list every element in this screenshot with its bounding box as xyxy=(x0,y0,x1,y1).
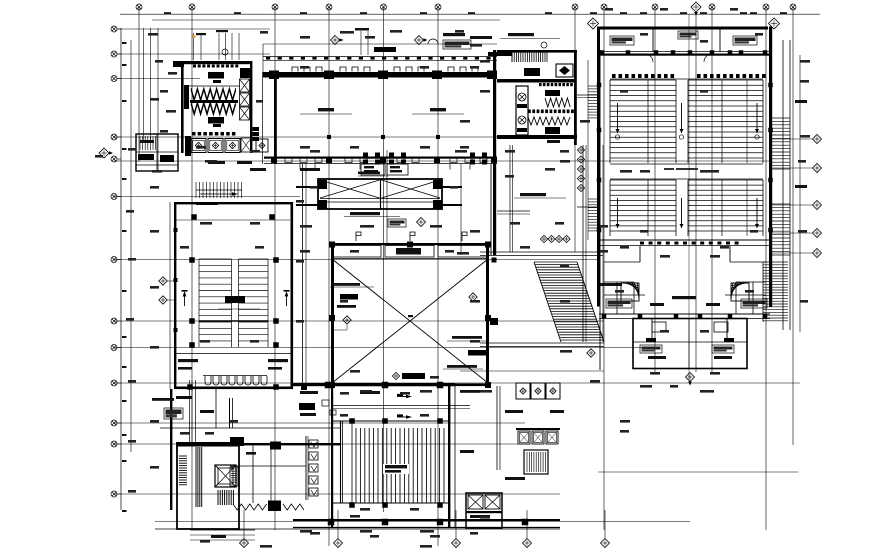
auditorium top rooms xyxy=(600,51,770,53)
midblock dotted row xyxy=(528,110,574,114)
void D big cross xyxy=(332,259,488,383)
left dimension ticks xyxy=(122,42,127,44)
auditorium cross aisle xyxy=(610,163,763,165)
stage block C end piers xyxy=(318,180,327,189)
stage block C cross left xyxy=(320,180,380,198)
hall B west wall xyxy=(274,72,277,164)
grand stair xyxy=(534,262,604,340)
void D columns xyxy=(329,242,335,248)
seat bank mid dividers xyxy=(647,80,649,163)
block F entry steps xyxy=(190,529,255,531)
wall double x387 xyxy=(386,150,388,243)
hall G elevator row top xyxy=(516,383,530,399)
block A elevator row xyxy=(185,136,191,156)
west corridor lines xyxy=(587,60,589,240)
block F big black column xyxy=(270,442,281,450)
bottom diamonds xyxy=(240,539,249,548)
block E left markers xyxy=(159,277,167,285)
block A risers above xyxy=(193,33,195,60)
hall G arrows top xyxy=(397,394,412,398)
midblock bottom wall xyxy=(497,135,577,139)
hall G SE elevator cluster xyxy=(466,493,502,528)
backstage wall xyxy=(599,313,770,315)
hall B pilaster clusters xyxy=(363,153,487,165)
hall G right labels xyxy=(505,410,523,413)
midblock top vent xyxy=(541,42,547,48)
block F partition xyxy=(215,389,217,428)
block F corridor verticals xyxy=(189,380,191,442)
void D top panels xyxy=(333,246,381,258)
right side diamonds xyxy=(813,135,822,144)
hall B columns xyxy=(271,157,277,163)
stage side walls xyxy=(639,246,641,262)
west entrance hatch xyxy=(140,136,156,150)
block F left hatch box xyxy=(230,467,238,486)
auditorium upper seat rows xyxy=(610,80,676,158)
block F door blob xyxy=(230,437,244,446)
hall G center label xyxy=(383,464,409,474)
stage diag stairs xyxy=(621,283,749,301)
hall G corridor wall xyxy=(340,421,342,503)
midblock elevator xyxy=(556,64,573,77)
scattered dimension labels xyxy=(95,8,810,548)
orange mark xyxy=(193,35,196,38)
block A AHU edge xyxy=(184,85,189,109)
east ext stair lower xyxy=(772,204,790,255)
backstage side rooms xyxy=(604,294,645,296)
block A AHU mid bar xyxy=(190,100,238,103)
block A bottom labels xyxy=(208,161,225,164)
hall B interior labels xyxy=(318,108,334,111)
hall G left label blob xyxy=(299,403,315,410)
auditorium outer walls xyxy=(600,27,768,30)
midblock labels top xyxy=(508,33,534,36)
east big stair xyxy=(763,262,788,321)
stage block C inner band xyxy=(320,198,440,200)
diamond below stair xyxy=(587,349,595,357)
corridor A-B stalls xyxy=(253,127,260,141)
block F dim label xyxy=(152,398,174,401)
block F elevator xbox xyxy=(215,465,236,487)
block F wall stub xyxy=(229,398,231,428)
hall G stair xyxy=(524,450,548,474)
block F core stair hatch1 xyxy=(179,456,187,485)
block A elevator dentils xyxy=(192,132,235,136)
hall G toilets left xyxy=(305,436,307,500)
block E toilet row xyxy=(203,376,267,386)
right dim line xyxy=(799,55,801,332)
block E columns xyxy=(191,214,197,220)
void east wall cluster xyxy=(490,318,498,325)
block F core stair hatch2 xyxy=(218,490,233,505)
block A outer walls xyxy=(173,61,184,67)
left grid bubbles xyxy=(111,26,117,32)
stage block C cross right xyxy=(382,180,441,198)
block A shaft xbox xyxy=(241,138,251,152)
hall G top room labels xyxy=(300,391,318,394)
block E raked floor rows xyxy=(199,259,232,341)
hall B terrace line xyxy=(263,43,497,45)
corridor labels xyxy=(196,202,218,205)
block A AHU zigzag hatch xyxy=(191,88,236,115)
stage block C outline xyxy=(318,179,442,209)
block E center label xyxy=(225,296,245,303)
hall B top-right label box xyxy=(443,40,471,49)
stage block C upper boxes xyxy=(361,164,385,175)
diamond chain horizontal xyxy=(540,235,547,242)
hall G walls xyxy=(331,386,333,528)
section flags on void wall xyxy=(356,232,361,241)
top dimension line xyxy=(120,13,820,15)
block E wall columns xyxy=(174,228,178,232)
left border line xyxy=(120,28,122,510)
grid verticals xyxy=(139,7,793,546)
void D walls xyxy=(331,243,489,245)
stair landing lines xyxy=(480,342,604,344)
stage center mark xyxy=(688,14,690,380)
block E side labels xyxy=(178,359,198,362)
void D center mark xyxy=(408,315,413,317)
auditorium top room arcs xyxy=(645,54,653,62)
east ext stair upper xyxy=(772,118,790,169)
auditorium stage front xyxy=(600,239,770,241)
top grid diamond xyxy=(691,2,701,16)
midblock chevron row1 xyxy=(545,98,570,107)
hall G columns bottom xyxy=(328,519,335,526)
block A equip labels xyxy=(208,72,224,79)
block A 4th elevator xyxy=(256,139,268,152)
bridge double line xyxy=(480,251,603,253)
hall B underwall ticks xyxy=(300,164,470,170)
grid horizontals xyxy=(114,29,800,494)
stage side room walls xyxy=(616,282,618,314)
label box VIP xyxy=(388,219,406,227)
block F walls xyxy=(170,389,172,510)
mid vertical walls xyxy=(582,145,584,342)
hall G raked verticals xyxy=(356,428,444,503)
block A duct xboxes xyxy=(240,79,250,92)
void D right labels xyxy=(452,336,482,339)
hall G columns top xyxy=(325,382,332,389)
auditorium aisle arrows xyxy=(616,103,620,133)
hall G right corridor xyxy=(454,386,456,528)
hall G inner lines xyxy=(333,405,470,407)
hall B mullion row xyxy=(292,67,478,72)
void D bottom labels xyxy=(402,373,425,379)
hall B center top label xyxy=(374,47,396,52)
midblock black wall band xyxy=(497,79,574,83)
hall G elevator row mid xyxy=(516,428,560,430)
stage block C label xyxy=(350,212,380,215)
west wing dimension verticals xyxy=(143,28,145,140)
left arrow diamond xyxy=(99,148,113,158)
backstage lower extension xyxy=(633,319,747,369)
hall G top wall xyxy=(293,383,455,386)
midblock walls xyxy=(497,50,577,53)
corridor stair treads xyxy=(196,182,242,198)
midblock label1 xyxy=(524,68,540,76)
auditorium dentil rows xyxy=(612,74,766,78)
block E walls xyxy=(174,202,293,204)
midblock upper stair xyxy=(512,53,545,63)
east gallery walls xyxy=(782,40,784,330)
void D right arrow diamond xyxy=(469,293,477,301)
hall G mid columns xyxy=(349,418,355,424)
stage label xyxy=(672,296,696,299)
void D panel label xyxy=(396,248,421,255)
midblock chevron row2 xyxy=(528,117,570,125)
auditorium wall columns xyxy=(597,83,602,88)
diamond below stage xyxy=(686,373,695,386)
west corridor landing lines xyxy=(577,94,600,96)
hall B top facade wall xyxy=(263,55,497,57)
corridor stair arrow xyxy=(200,192,238,196)
zigzag doors south xyxy=(233,504,304,510)
auditorium top diamonds xyxy=(588,18,599,29)
west vomitory stairs xyxy=(588,86,599,118)
block F core wall band xyxy=(196,447,202,507)
west entrance block xyxy=(136,134,178,171)
stage block C flank walls xyxy=(296,186,318,188)
hall B riser pipes xyxy=(360,31,362,55)
hall B main top wall xyxy=(263,72,497,78)
markers above hall xyxy=(331,36,344,45)
void D left labels xyxy=(332,283,360,286)
block E corridor line xyxy=(176,353,291,355)
bottom building lines xyxy=(155,528,560,530)
grand stair labels xyxy=(520,193,546,196)
hall B bottom wall xyxy=(264,157,497,159)
diamond chain vertical xyxy=(577,146,584,153)
east corridor labels xyxy=(795,100,807,103)
midblock duct shaft xyxy=(516,86,528,135)
block F labels xyxy=(164,408,183,419)
auditorium lower seat rows xyxy=(610,180,676,231)
hall B east wall xyxy=(493,50,496,255)
block A top dentils xyxy=(193,65,238,68)
block E arrows xyxy=(182,290,188,306)
backstage small boxes xyxy=(652,322,666,332)
midblock lower walls xyxy=(490,164,492,255)
midblock label2 xyxy=(545,90,560,96)
top grid bubbles xyxy=(136,4,142,10)
black column at doors xyxy=(268,501,281,512)
corridor east of E verticals xyxy=(302,164,304,386)
block F core xyxy=(177,443,239,529)
